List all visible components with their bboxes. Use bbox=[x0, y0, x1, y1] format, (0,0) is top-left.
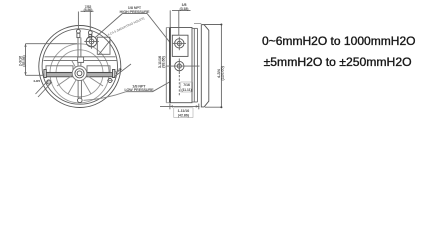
bracket arm right bbox=[87, 66, 110, 73]
spoke up-left bbox=[72, 61, 76, 67]
flange bottom connector bbox=[192, 101, 198, 103]
svg-text:LOW PRESSURE: LOW PRESSURE bbox=[125, 88, 155, 92]
tube junction box bbox=[78, 57, 84, 62]
bezel cap outline bbox=[201, 25, 209, 107]
dial circle outer bbox=[50, 44, 109, 103]
bracket upper chord lines bbox=[45, 56, 116, 58]
svg-text:0~6mmH2O to 1000mmH2O: 0~6mmH2O to 1000mmH2O bbox=[262, 34, 416, 48]
top dim line left bbox=[77, 12, 79, 30]
flange line 2 bbox=[197, 28, 199, 102]
high pressure label underline bbox=[123, 12, 147, 14]
svg-text:(42.86): (42.86) bbox=[178, 114, 189, 118]
svg-text:(5.56): (5.56) bbox=[84, 8, 93, 12]
low pressure label underline bbox=[126, 91, 153, 93]
bracket bar bbox=[45, 73, 115, 77]
dial circle inner bbox=[56, 50, 103, 97]
left dim bottom extension bbox=[26, 74, 45, 76]
bottom dim ext right bbox=[198, 104, 200, 110]
left dim top extension bbox=[26, 43, 78, 45]
top dim line right bbox=[89, 12, 91, 31]
spoke down-left steep bbox=[68, 80, 76, 94]
port box bbox=[172, 35, 188, 56]
left dim vertical bbox=[25, 44, 27, 76]
svg-text:±5mmH2O to ±250mmH2O: ±5mmH2O to ±250mmH2O bbox=[264, 55, 412, 69]
right dim bottom extension bbox=[205, 106, 222, 108]
right dim vertical bbox=[220, 25, 222, 108]
side body rect bbox=[170, 28, 192, 103]
spoke down-left low bbox=[57, 75, 73, 86]
bar right end cap bbox=[113, 70, 115, 78]
dashed extension from lower port bbox=[178, 75, 180, 96]
low pressure leader to bottom port bbox=[84, 92, 127, 101]
side upper port bbox=[175, 39, 184, 48]
bottom text box bbox=[174, 108, 193, 118]
bracket hole right bbox=[108, 79, 112, 83]
top port right symbol bbox=[88, 31, 92, 35]
spoke down-right low bbox=[86, 75, 103, 86]
7/16 text box bbox=[181, 82, 193, 92]
bar left end cap bbox=[44, 70, 46, 78]
side left dim vertical bbox=[165, 28, 167, 103]
side top dim underline bbox=[172, 9, 191, 11]
bottom dim arrows bbox=[170, 105, 199, 107]
rear port ring bbox=[86, 36, 97, 47]
svg-text:HIGH PRESSURE: HIGH PRESSURE bbox=[120, 10, 150, 14]
top port left symbol bbox=[77, 29, 81, 33]
high pressure leader to front port bbox=[95, 13, 123, 37]
side left dim ext ticks bbox=[166, 27, 169, 29]
svg-text:(11.11): (11.11) bbox=[181, 88, 191, 92]
top dim underline bbox=[81, 10, 94, 12]
side lower port bbox=[175, 61, 184, 70]
right dim top extension bbox=[202, 24, 222, 26]
side top dim ext 2 bbox=[178, 10, 180, 35]
svg-text:1-11/16: 1-11/16 bbox=[178, 109, 190, 113]
bottom port circle bbox=[78, 98, 83, 103]
left dim arrows bbox=[24, 44, 26, 76]
hole leader lines lower-left bbox=[38, 82, 52, 97]
bottom dim line bbox=[160, 105, 200, 107]
hub ring bbox=[72, 66, 87, 81]
bracket arm left bbox=[46, 66, 73, 73]
svg-text:7/16: 7/16 bbox=[183, 83, 190, 87]
terminal box upper right bbox=[97, 37, 110, 54]
bracket hole left bbox=[47, 80, 51, 84]
side top dim ext 1 bbox=[169, 10, 171, 27]
terminal box leader bbox=[99, 40, 111, 55]
hub inner circle bbox=[77, 71, 82, 76]
right dim dots bbox=[220, 24, 222, 26]
bottom tube left line bbox=[77, 80, 79, 98]
tube below junction to hub bbox=[77, 62, 79, 67]
front view bezel ring bbox=[42, 29, 117, 104]
bottom dim ext left bbox=[169, 104, 171, 110]
flange line 1 bbox=[193, 28, 195, 102]
flange top connector bbox=[192, 27, 198, 29]
svg-text:(120.65): (120.65) bbox=[220, 65, 225, 80]
svg-text:(55.56): (55.56) bbox=[22, 55, 26, 66]
cap top extension tick bbox=[194, 23, 201, 25]
bottom tube right line bbox=[80, 80, 82, 98]
spoke down-right steep bbox=[83, 80, 91, 94]
svg-text:2-R5: 2-R5 bbox=[34, 79, 41, 83]
svg-text:(3.18): (3.18) bbox=[180, 7, 189, 11]
front view outer circle bbox=[39, 26, 121, 108]
low pressure leader to side body bbox=[153, 82, 170, 92]
side body left edge heavy bbox=[169, 28, 171, 103]
hub outer circle bbox=[75, 69, 84, 78]
tube up to port (pair) bbox=[77, 38, 79, 58]
svg-text:4-C4.5 (MOUNTING HOLES): 4-C4.5 (MOUNTING HOLES) bbox=[107, 16, 145, 37]
diagonal mounting-hole leader right bbox=[114, 64, 131, 77]
svg-text:(93.66): (93.66) bbox=[162, 56, 166, 68]
high pressure leader to side port bbox=[147, 13, 170, 42]
